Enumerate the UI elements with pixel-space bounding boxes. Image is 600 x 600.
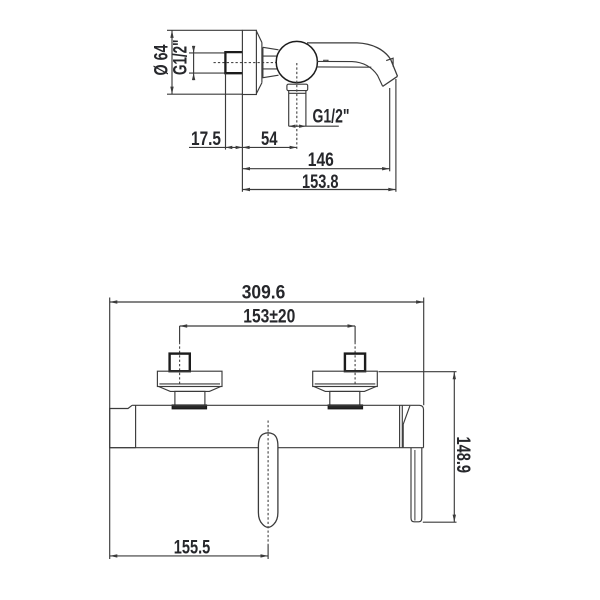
dim Ø64 top extension line — [167, 29, 242, 31]
svg-text:148.9: 148.9 — [452, 437, 473, 474]
dim 153.8 left arrow — [242, 188, 250, 191]
dim G1/2 inlet top extension line — [189, 52, 226, 54]
left union locknut lip — [172, 405, 206, 408]
dim 146 left arrow — [242, 167, 250, 170]
dim 54 left arrow — [242, 146, 249, 149]
ball joint body — [276, 41, 317, 82]
spout end notch — [386, 58, 393, 66]
dim 153.8 right arrow — [388, 188, 396, 191]
dim G1/2 outlet right arrow — [299, 125, 306, 128]
right union centerline dashed — [354, 342, 356, 386]
right union nipple G1/2 — [345, 354, 365, 372]
dim 155.5 dimension line — [110, 555, 268, 557]
body right end line 2 — [401, 405, 403, 447]
left union cone — [159, 387, 221, 392]
dim G1/2 inlet lower arrow — [192, 73, 195, 80]
body left end cap — [110, 405, 136, 447]
taper cone top edge — [256, 31, 262, 43]
vertical centerline of outlet — [296, 63, 298, 151]
body top edge — [132, 404, 419, 406]
dim 153.8 dimension line — [242, 189, 396, 191]
dim 155.5 right arrow — [261, 554, 269, 557]
right union cone — [314, 387, 376, 392]
dim 146 right arrow — [382, 167, 390, 170]
dim 17.5 right arrow — [236, 146, 243, 149]
right union locknut lip — [328, 405, 362, 408]
extension right union centerline solid — [354, 326, 356, 342]
shower outlet pipe G1/2 — [289, 91, 306, 127]
taper cone bottom edge — [256, 83, 262, 94]
dim 148.9 top extension line — [379, 371, 457, 373]
left union centerline dashed — [179, 342, 181, 386]
shower outlet collar — [287, 84, 308, 90]
svg-text:146: 146 — [308, 150, 334, 171]
extension line spout outer tip x=395.9 — [395, 79, 397, 192]
handle lever neck diagonal — [403, 406, 410, 448]
right union neck — [330, 391, 360, 405]
left union flange inner line — [159, 383, 220, 385]
extension line plate face x=242.4 — [241, 94, 243, 191]
dim G1/2 inlet dimension line — [193, 46, 195, 80]
spout middle edge jog — [324, 60, 328, 61]
left union neck — [175, 391, 205, 405]
hex nut outline — [263, 47, 279, 77]
svg-text:54: 54 — [261, 129, 278, 150]
svg-text:Ø 64: Ø 64 — [151, 44, 172, 75]
dim 309.6 left arrow — [110, 300, 118, 303]
body top right rounded corner — [420, 405, 424, 409]
diverter centerline extension solid — [267, 545, 269, 559]
dim Ø64 dimension line — [171, 30, 173, 94]
dim 17.5 and 54 dimension line — [189, 146, 297, 148]
svg-text:309.6: 309.6 — [242, 283, 286, 304]
dim 155.5 left arrow — [110, 554, 118, 557]
dim 146 dimension line — [242, 168, 389, 170]
extension line spout tip x=389.7 — [389, 88, 391, 171]
dim 153±20 dimension line — [180, 325, 356, 327]
dim 309.6 right arrow — [416, 300, 424, 303]
dim 54 right arrow — [290, 146, 297, 149]
dim 153±20 left arrow — [180, 324, 188, 327]
escutcheon plate Ø64 — [242, 30, 256, 94]
dim 148.9 bottom extension line — [423, 521, 457, 523]
body right end line 1 — [399, 405, 401, 447]
svg-text:G1/2": G1/2" — [171, 40, 192, 76]
svg-text:153.8: 153.8 — [302, 172, 339, 193]
spout inner (middle) edge — [317, 61, 383, 86]
right extension line x=423.7 — [423, 298, 425, 406]
right union flange inner line — [315, 383, 376, 385]
dim 148.9 top arrow — [453, 372, 456, 380]
spout bottom edge — [317, 66, 372, 68]
dim 148.9 dimension line — [453, 372, 455, 523]
diverter centerline dashed — [267, 421, 269, 546]
front view: bath mixer front elevation — [110, 283, 474, 560]
dim G1/2 inlet bottom extension line — [189, 72, 226, 74]
spout outer (top) edge — [307, 43, 398, 76]
side view: wall-mounted bath mixer, side elevation — [151, 30, 397, 193]
handle shaft inner highlight line — [414, 450, 416, 521]
svg-text:G1/2": G1/2" — [313, 107, 350, 128]
dim 153±20 right arrow — [348, 324, 356, 327]
diverter knob capsule — [258, 433, 278, 528]
taper cone right edge — [261, 43, 263, 83]
body bottom edge right of diverter — [278, 447, 424, 449]
dim Ø64 bottom arrow — [170, 87, 173, 95]
dim G1/2 inlet upper arrow — [192, 46, 195, 53]
dim 309.6 dimension line — [110, 301, 424, 303]
body bottom edge left of diverter — [110, 447, 259, 449]
dim G1/2 outlet dimension line with leader — [289, 125, 339, 127]
dim G1/2 outlet left arrow — [289, 125, 296, 128]
spout tip cut edge — [383, 76, 398, 86]
inlet pipe nipple G1/2 — [225, 52, 242, 73]
body cap joint line — [135, 405, 137, 447]
dim Ø64 top arrow — [170, 30, 173, 38]
right union flange — [313, 371, 378, 386]
left extension line x=109.7 — [109, 298, 111, 560]
handle base right edge — [423, 410, 425, 448]
svg-text:17.5: 17.5 — [191, 129, 221, 150]
dim Ø64 bottom extension line — [167, 93, 242, 95]
left union flange — [157, 371, 222, 386]
extension line wall face x=225.5 — [225, 73, 227, 149]
extension left union centerline solid — [179, 326, 181, 342]
handle lever shaft — [411, 448, 422, 522]
svg-text:155.5: 155.5 — [174, 538, 211, 559]
horizontal centerline — [214, 62, 280, 64]
svg-text:153±20: 153±20 — [243, 307, 295, 328]
dim 17.5 left arrow — [226, 146, 233, 149]
dim 148.9 bottom arrow — [453, 515, 456, 523]
left union nipple G1/2 — [170, 354, 190, 372]
